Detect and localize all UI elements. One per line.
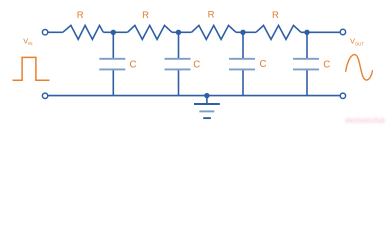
wire: bottom rail, C4 to output terminal: [307, 95, 340, 97]
node 1 junction: [111, 30, 116, 35]
output terminal (top): [340, 29, 345, 34]
wire: R3 to node 3: [236, 31, 243, 33]
wire: R4 past node 4 to output terminal: [301, 31, 340, 33]
input terminal (top): [42, 30, 47, 35]
input pulse waveform: [13, 57, 50, 80]
wire: bottom rail, C3 to C4: [243, 95, 307, 97]
svg-text:C: C: [130, 59, 137, 70]
capacitor C3 top lead: [242, 32, 244, 58]
wire: node 1 to R2: [113, 31, 127, 33]
svg-text:R: R: [272, 10, 279, 21]
wire: R1 to node 1: [103, 31, 113, 33]
svg-text:R: R: [77, 10, 84, 21]
capacitor C3 plates: [229, 59, 255, 70]
svg-text:C: C: [193, 59, 200, 70]
output sine waveform: [346, 55, 373, 81]
wire: input terminal to R1: [48, 31, 63, 33]
capacitor C4 bottom lead: [306, 70, 308, 96]
capacitor C4 plates: [293, 59, 319, 70]
wire: node 3 to R4: [243, 31, 256, 33]
output terminal (bottom): [340, 93, 345, 98]
svg-text:R: R: [208, 10, 215, 21]
capacitor C2 bottom lead: [178, 70, 180, 96]
ground: [194, 104, 220, 118]
capacitor C2 plates: [165, 59, 191, 70]
wire: bottom rail, input terminal to C1: [48, 95, 113, 97]
svg-text:C: C: [323, 59, 330, 70]
wire: node 2 to R3: [179, 31, 192, 33]
node 3 junction: [240, 30, 245, 35]
input terminal (bottom): [42, 93, 47, 98]
capacitor C1 plates: [99, 59, 125, 70]
svg-text:C: C: [260, 59, 267, 70]
ground junction: [204, 93, 209, 98]
wire: bottom rail, C2 to ground node: [179, 95, 207, 97]
capacitor C1 top lead: [112, 32, 114, 58]
svg-text:electronicshub: electronicshub: [345, 116, 385, 125]
wire: bottom rail, ground node to C3: [207, 95, 243, 97]
capacitor C2 top lead: [178, 32, 180, 58]
resistor R3: [192, 25, 237, 39]
capacitor C1 bottom lead: [112, 70, 114, 96]
capacitor C3 bottom lead: [242, 70, 244, 96]
ground lead: [206, 96, 208, 104]
svg-text:R: R: [142, 10, 149, 21]
wire: R2 to node 2: [172, 31, 179, 33]
wire: bottom rail, C1 to C2: [113, 95, 178, 97]
node 2 junction: [176, 30, 181, 35]
resistor R2: [128, 25, 173, 39]
resistor R4: [256, 25, 301, 39]
resistor R1: [63, 25, 104, 39]
node 4 junction: [304, 30, 309, 35]
capacitor C4 top lead: [306, 32, 308, 58]
